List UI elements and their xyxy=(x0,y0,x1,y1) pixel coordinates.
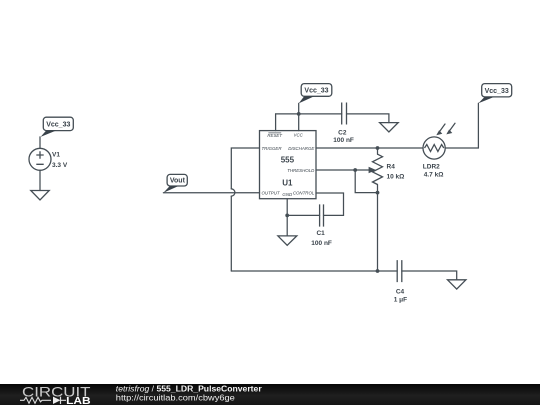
wire hop over OUTPUT wire xyxy=(231,189,235,196)
wire left vertical to bottom rail xyxy=(230,196,232,271)
net flag Vcc_33 at top rail xyxy=(299,84,332,104)
svg-text:10 kΩ: 10 kΩ xyxy=(387,173,405,180)
wire LDR right to Vcc flag xyxy=(445,103,478,148)
capacitor C4 xyxy=(397,260,402,282)
ground (under U1 GND) xyxy=(278,236,297,245)
svg-text:DISCHARGE: DISCHARGE xyxy=(288,146,314,151)
capacitor C2 xyxy=(342,103,347,125)
svg-text:Vcc_33: Vcc_33 xyxy=(304,88,328,95)
wire OUTPUT to Vout flag xyxy=(163,192,259,194)
ground (right of C4) xyxy=(448,280,466,289)
svg-text:LAB: LAB xyxy=(66,395,91,405)
net flag Vcc_33 at V1 xyxy=(41,117,74,137)
resistor R4 (rheostat) xyxy=(355,148,382,193)
ground (right of C2) xyxy=(380,123,399,132)
svg-text:THRESHOLD: THRESHOLD xyxy=(287,168,315,173)
svg-text:3.3 V: 3.3 V xyxy=(52,162,68,169)
wire top rail left of C2 xyxy=(276,113,342,115)
V1 value label xyxy=(52,152,68,169)
photoresistor LDR2 xyxy=(423,123,455,159)
svg-text:C4: C4 xyxy=(396,289,405,296)
svg-text:GND: GND xyxy=(282,192,293,197)
wire C4 right to ground xyxy=(402,271,457,280)
C4 value label xyxy=(394,289,407,304)
wire V1 top xyxy=(39,137,41,148)
voltage source V1 xyxy=(29,148,51,170)
IC U1 555 body xyxy=(260,131,317,199)
junction GND node xyxy=(285,214,289,218)
CircuitLab logo diode xyxy=(53,397,66,404)
svg-text:U1: U1 xyxy=(282,179,293,188)
svg-text:tetrisfrog / 555_LDR_PulseConv: tetrisfrog / 555_LDR_PulseConverter xyxy=(116,385,262,394)
C1 value label xyxy=(311,230,332,247)
wire wiper node down to R4 bottom xyxy=(355,170,377,193)
C2 value label xyxy=(333,130,354,145)
wire DISCHARGE to LDR xyxy=(316,147,423,149)
junction VCC node xyxy=(297,112,301,116)
svg-text:Vcc_33: Vcc_33 xyxy=(485,88,509,95)
svg-text:Vout: Vout xyxy=(170,178,186,185)
junction R4 bottom xyxy=(376,191,380,195)
svg-text:100 nF: 100 nF xyxy=(311,240,332,247)
capacitor C1 xyxy=(320,204,324,226)
svg-text:http://circuitlab.com/cbwy6ge: http://circuitlab.com/cbwy6ge xyxy=(116,393,235,402)
svg-text:4.7 kΩ: 4.7 kΩ xyxy=(424,172,444,179)
net flag Vout xyxy=(163,174,187,192)
svg-text:C2: C2 xyxy=(338,130,347,137)
svg-text:R4: R4 xyxy=(387,164,396,171)
wire THRESHOLD to wiper node xyxy=(316,169,355,171)
junction DISCHARGE / R4 top xyxy=(376,146,380,150)
wire GND pin down xyxy=(286,199,288,236)
wire V1 bottom xyxy=(39,170,41,190)
svg-text:CONTROL: CONTROL xyxy=(293,191,315,196)
svg-text:1 μF: 1 μF xyxy=(394,297,407,304)
wire top rail right of C2 xyxy=(347,114,389,123)
wire TRIGGER to left vertical xyxy=(231,148,259,189)
wire R4 bottom to bottom rail xyxy=(377,193,379,271)
svg-text:OUTPUT: OUTPUT xyxy=(262,191,280,196)
svg-text:V1: V1 xyxy=(52,152,60,159)
net flag Vcc_33 at LDR xyxy=(478,84,511,104)
wire CONTROL to C1 xyxy=(316,193,344,215)
footer bar xyxy=(0,384,540,405)
wire C1 left to GND node xyxy=(287,214,319,216)
wire VCC pin to top rail xyxy=(298,103,300,130)
svg-text:Vcc_33: Vcc_33 xyxy=(46,122,70,129)
svg-text:VCC: VCC xyxy=(294,133,304,138)
U1 pin label RESET (active low) xyxy=(267,133,282,138)
LDR2 value label xyxy=(423,163,444,178)
svg-text:TRIGGER: TRIGGER xyxy=(262,146,283,151)
svg-text:LDR2: LDR2 xyxy=(423,163,440,170)
wire bottom rail xyxy=(231,270,397,272)
svg-text:C1: C1 xyxy=(316,230,325,237)
junction wiper node xyxy=(353,168,357,172)
wire RESET pin to top rail xyxy=(275,114,277,131)
junction bottom rail / R4 branch xyxy=(376,269,380,273)
svg-text:100 nF: 100 nF xyxy=(333,137,354,144)
svg-text:RESET: RESET xyxy=(267,133,282,138)
R4 value label xyxy=(387,164,405,181)
ground (under V1) xyxy=(31,191,49,201)
svg-text:555: 555 xyxy=(281,156,295,165)
CircuitLab logo resistor zigzag xyxy=(20,397,51,403)
